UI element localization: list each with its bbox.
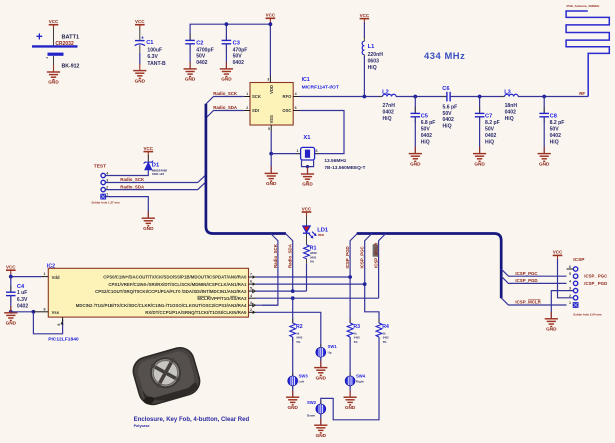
svg-text:RFO: RFO: [283, 94, 293, 99]
svg-text:1: 1: [246, 92, 248, 96]
svg-text:1: 1: [297, 149, 299, 153]
svg-text:VCC: VCC: [553, 250, 563, 255]
wire VCC to battery: [53, 28, 55, 46]
power VCC (IC2): [6, 265, 16, 275]
svg-text:IC2: IC2: [47, 263, 55, 269]
diode D1 (zener): [144, 161, 168, 176]
wire TEST pin4 to D1: [105, 170, 148, 176]
text enclosure caption: [134, 417, 250, 428]
svg-text:50V: 50V: [196, 54, 206, 60]
svg-text:5%: 5%: [310, 259, 315, 263]
svg-text:CR2032: CR2032: [55, 41, 74, 47]
svg-text:VCC: VCC: [6, 265, 16, 270]
pin 4 RFO stub: [293, 92, 299, 97]
capacitor C6 (series): [442, 86, 458, 130]
svg-text:VCC: VCC: [266, 13, 276, 18]
power VCC (ICSP): [553, 250, 563, 259]
ground (X1 case): [301, 167, 314, 187]
battery BATT1: [32, 32, 79, 70]
svg-text:50V: 50V: [550, 127, 560, 133]
wire L2 to C6: [396, 96, 447, 98]
wire C2 to ground: [189, 44, 191, 69]
svg-text:CPS1/VREF/C1IN0-/SRI/RX/DT/SCL: CPS1/VREF/C1IN0-/SRI/RX/DT/SCL/SCK/MDMIN…: [108, 282, 247, 287]
ground (battery): [47, 65, 60, 85]
svg-text:TEST: TEST: [94, 163, 106, 169]
svg-text:8: 8: [44, 307, 46, 311]
svg-text:Solder hole 2.54 mm: Solder hole 2.54 mm: [573, 312, 602, 316]
ground (C8): [538, 147, 551, 167]
pin 7 RA0 stub: [249, 273, 256, 279]
svg-text:8.2 pF: 8.2 pF: [485, 120, 500, 126]
svg-text:Down: Down: [307, 414, 315, 418]
svg-text:MDCIN2 /T1G/P1B/TX/CK/SDC/CLKR: MDCIN2 /T1G/P1B/TX/CK/SDC/CLKR/C1IN1-/T1…: [76, 303, 247, 308]
svg-text:2: 2: [569, 294, 571, 298]
svg-text:GND: GND: [135, 78, 146, 83]
wire SW2 to ground: [320, 413, 322, 424]
wire R4 to SW2: [321, 337, 379, 420]
antenna PCB_Antenna_434MHz: [566, 4, 609, 96]
svg-text:SOD-123: SOD-123: [152, 172, 164, 176]
svg-text:VCC: VCC: [360, 13, 370, 18]
wire C8 to ground: [543, 117, 545, 153]
junction C3 top: [225, 22, 229, 26]
svg-text:2: 2: [250, 308, 252, 312]
connector TEST header: [92, 163, 121, 204]
switch SW2 Down: [307, 400, 326, 418]
svg-text:1: 1: [44, 272, 46, 276]
svg-text:18nH: 18nH: [505, 103, 518, 109]
ground (TEST): [142, 211, 155, 231]
switch SW1 Up: [316, 344, 337, 361]
svg-text:Left: Left: [299, 380, 305, 384]
svg-text:HiQ: HiQ: [485, 139, 494, 145]
power VCC (C1): [135, 19, 145, 29]
wire C3 to ground: [225, 44, 227, 69]
svg-text:50V: 50V: [485, 127, 495, 133]
svg-text:50V: 50V: [443, 111, 453, 117]
wire C5 to node: [414, 97, 416, 114]
svg-text:SW2: SW2: [307, 400, 317, 405]
bus main: [206, 104, 286, 234]
svg-text:C5: C5: [421, 113, 428, 119]
wire VSS to ground: [270, 131, 272, 173]
svg-text:C7: C7: [485, 113, 492, 119]
svg-text:SW3: SW3: [299, 373, 309, 378]
svg-text:Radio_SDA: Radio_SDA: [120, 184, 145, 189]
resistor R4: [376, 319, 389, 344]
svg-text:GND: GND: [316, 375, 327, 380]
wire X1 case to ground: [302, 161, 314, 174]
svg-text:VDD: VDD: [269, 85, 274, 94]
svg-text:0402: 0402: [505, 109, 516, 115]
wire Radio_SCK to IC1: [206, 91, 244, 104]
svg-text:Right: Right: [356, 380, 364, 384]
svg-text:0402: 0402: [296, 336, 302, 340]
svg-text:IC1: IC1: [302, 77, 310, 83]
svg-text:6.3V: 6.3V: [17, 297, 28, 303]
svg-text:Solder hole 1.27 mm: Solder hole 1.27 mm: [92, 201, 121, 205]
bus right segment: [357, 234, 502, 299]
junction RA3/R2: [291, 296, 295, 300]
svg-text:OSC: OSC: [282, 108, 291, 113]
wire battery to ground: [53, 56, 55, 66]
svg-text:5%: 5%: [383, 340, 387, 344]
capacitor C4: [6, 284, 28, 310]
key fob photo: [130, 344, 203, 407]
wire ICSP_PGC to header: [501, 269, 566, 276]
svg-text:0603: 0603: [368, 59, 379, 65]
svg-text:5: 5: [250, 287, 252, 291]
capacitor C1 (polarized): [135, 36, 166, 67]
wire R1 to RA2 net: [306, 263, 308, 291]
svg-text:7B-13.560MEEQ-T: 7B-13.560MEEQ-T: [324, 165, 365, 171]
ground (C7): [473, 147, 486, 167]
wire ICSP pin3 to ground: [551, 291, 573, 319]
svg-text:1: 1: [106, 193, 108, 197]
capacitor C2: [185, 34, 213, 66]
svg-text:GND: GND: [221, 77, 232, 82]
svg-text:220nH: 220nH: [368, 52, 384, 58]
junction C5 node: [413, 95, 417, 99]
wire ICSP_PGD to header: [501, 276, 566, 283]
wire TEST pin2 Radio_SDA: [105, 182, 205, 190]
junction C8 node: [542, 95, 546, 99]
svg-text:0402: 0402: [550, 133, 561, 139]
svg-text:C4: C4: [17, 284, 25, 290]
svg-text:MICRF114T-I/OT: MICRF114T-I/OT: [302, 84, 339, 90]
svg-text:CPS0/C1IN+/DACOUT/TX/CK/SDO/SS: CPS0/C1IN+/DACOUT/TX/CK/SDO/SS/P1B/MDOUT…: [103, 275, 247, 280]
wire VCC to C1: [139, 28, 141, 40]
svg-text:Vss: Vss: [52, 310, 60, 315]
svg-text:R4: R4: [382, 324, 389, 330]
pin 5 VSS stub: [268, 125, 271, 131]
svg-text:GND: GND: [185, 77, 196, 82]
svg-text:ICSP: ICSP: [573, 257, 585, 263]
svg-text:PIC12LF1840: PIC12LF1840: [48, 336, 79, 342]
wire VCC to D1: [147, 155, 149, 162]
svg-text:HiQ: HiQ: [383, 116, 392, 122]
svg-text:HiQ: HiQ: [505, 116, 514, 122]
svg-text:4: 4: [106, 171, 108, 175]
IC IC2 PIC12LF1840 body: [47, 263, 249, 342]
svg-text:0402: 0402: [354, 336, 360, 340]
wire RFO to L2: [300, 96, 383, 98]
svg-text:SW4: SW4: [356, 373, 366, 378]
wire VCC down to IC1 VDD: [269, 22, 271, 76]
svg-text:ICSP_MCLR: ICSP_MCLR: [373, 242, 378, 268]
wire Vss net: [11, 311, 34, 313]
svg-text:0402: 0402: [383, 336, 389, 340]
ground (SW3): [286, 390, 299, 410]
svg-text:1k: 1k: [296, 331, 299, 335]
svg-text:5.6 pF: 5.6 pF: [443, 104, 458, 110]
svg-text:GND: GND: [48, 80, 59, 85]
LED LD1: [303, 226, 329, 238]
pin 6 OSC stub: [293, 106, 299, 111]
switch SW4 Right: [345, 373, 365, 390]
svg-text:ICSP_ PGD: ICSP_ PGD: [584, 281, 607, 286]
svg-text:1: 1: [569, 301, 571, 305]
power VCC (battery): [49, 19, 59, 29]
svg-text:27nH: 27nH: [383, 103, 396, 109]
wire VCC to ICSP pin2: [558, 259, 574, 298]
svg-text:L2: L2: [382, 90, 389, 96]
pin bottom stub: [57, 317, 64, 326]
wire C4 top: [10, 277, 12, 293]
wire bus entry ICSP_PGD down: [350, 234, 357, 324]
svg-text:Radio_SDA: Radio_SDA: [213, 105, 238, 110]
pin 1 Vdd stub: [42, 272, 49, 276]
svg-text:Radio_SCK: Radio_SCK: [273, 243, 278, 268]
svg-text:330R: 330R: [310, 251, 317, 255]
resistor R3: [347, 319, 360, 344]
svg-text:ICSP_PGC: ICSP_PGC: [515, 271, 538, 276]
wire bus entry ICSP_MCLR down: [379, 234, 386, 299]
svg-text:R2: R2: [296, 324, 303, 330]
svg-text:1k: 1k: [383, 331, 386, 335]
svg-text:Radio_SCK: Radio_SCK: [120, 177, 145, 182]
inductor L1: [362, 37, 383, 71]
inductor L2: [378, 90, 400, 122]
svg-text:RF: RF: [579, 91, 585, 96]
wire RA3 net to R2: [292, 298, 294, 323]
power VCC (L1): [360, 13, 370, 23]
svg-text:C6: C6: [442, 86, 449, 92]
svg-text:SCK: SCK: [252, 94, 261, 99]
svg-text:C3: C3: [233, 40, 240, 46]
svg-text:1 uF: 1 uF: [17, 290, 27, 296]
wire C7 to node: [479, 97, 481, 114]
junction VCC / C4: [9, 275, 13, 279]
svg-text:VSS: VSS: [269, 115, 274, 124]
svg-text:C1: C1: [146, 40, 153, 46]
ground (SW2): [314, 418, 327, 438]
wire RA2 to Radio_SDA and R1: [256, 290, 307, 292]
pin 8 Vss stub: [33, 307, 48, 311]
power VCC (IC1 VDD): [266, 13, 276, 23]
svg-text:4: 4: [250, 294, 252, 298]
svg-text:0402: 0402: [233, 60, 244, 66]
power VCC (LD1): [302, 206, 312, 216]
svg-text:HiQ: HiQ: [443, 124, 452, 130]
wire VCC to L1: [363, 22, 365, 38]
svg-text:6.3V: 6.3V: [147, 54, 158, 60]
svg-text:+: +: [36, 32, 43, 44]
wire X1 pin1 to VSS: [271, 153, 301, 155]
junction VSS / X1: [269, 152, 273, 156]
svg-text:ICSP_MCLR: ICSP_MCLR: [515, 300, 541, 305]
svg-text:ICSP_PGC: ICSP_PGC: [360, 245, 365, 268]
ground (C3): [220, 62, 233, 82]
svg-text:4: 4: [295, 92, 297, 96]
svg-text:2: 2: [106, 186, 108, 190]
resistor R1: [304, 240, 317, 263]
ground (C2): [184, 62, 197, 82]
svg-text:0402: 0402: [443, 117, 454, 123]
ground (C5): [409, 147, 422, 167]
svg-text:SW1: SW1: [328, 344, 338, 349]
node label ICSP_MCLR vertical (highlighted): [373, 242, 379, 268]
svg-text:6: 6: [250, 280, 252, 284]
wire VCC to Vdd: [11, 274, 42, 277]
svg-text:GND: GND: [474, 161, 485, 166]
svg-text:Polycase: Polycase: [134, 424, 150, 428]
svg-text:1k: 1k: [354, 331, 357, 335]
wire RA3 to ICSP_MCLR: [256, 297, 379, 299]
svg-text:8.2 pF: 8.2 pF: [550, 120, 565, 126]
IC IC1 MICRF114T-I/OT body: [250, 77, 339, 125]
svg-text:434 MHz: 434 MHz: [424, 50, 465, 61]
pin 1 SCK stub: [244, 92, 250, 97]
svg-text:RED: RED: [318, 233, 325, 237]
ground (IC1 VSS): [265, 167, 278, 187]
svg-text:GND: GND: [287, 405, 298, 410]
junction VCC rail / VDD: [269, 22, 273, 26]
svg-text:8: 8: [57, 324, 61, 326]
svg-text:50V: 50V: [233, 54, 243, 60]
svg-text:C8: C8: [550, 113, 557, 119]
junction RA1/PGC: [363, 282, 367, 286]
svg-text:50V: 50V: [421, 127, 431, 133]
pin 4 RA3 stub: [249, 294, 256, 298]
pin 2 RA5 stub: [249, 308, 256, 314]
svg-text:Enclosure, Key Fob, 4-button,: Enclosure, Key Fob, 4-button, Clear Red: [134, 417, 250, 423]
svg-text:Radio_SDA: Radio_SDA: [288, 243, 293, 268]
wire OSC to X1 pin3: [300, 111, 345, 154]
svg-text:L3: L3: [504, 90, 511, 96]
ground (C4): [4, 306, 17, 326]
wire C6 to L3: [450, 96, 504, 98]
svg-text:VCC: VCC: [135, 19, 145, 24]
wire RA0 to ICSP_PGD: [256, 276, 351, 278]
svg-text:6: 6: [569, 265, 571, 269]
svg-text:6: 6: [295, 106, 297, 110]
junction L1 node: [363, 95, 367, 99]
crystal X1: [296, 135, 365, 171]
svg-text:GND: GND: [266, 181, 277, 186]
svg-text:ICSP_PGD: ICSP_PGD: [515, 278, 537, 283]
junction RA0/PGD: [348, 275, 352, 279]
svg-text:MCLR/VPP/T1G/SS/RA3: MCLR/VPP/T1G/SS/RA3: [197, 296, 247, 301]
junction Vss: [32, 310, 36, 314]
wire L1 to RF line: [363, 56, 365, 97]
pin 3 RA4 stub: [249, 301, 256, 307]
svg-text:CPS2/C1OUT/SRQ/T0CKI/CCP1/P1A/: CPS2/C1OUT/SRQ/T0CKI/CCP1/P1A/FLT0 /SDA/…: [95, 289, 247, 294]
connector ICSP header: [567, 257, 608, 316]
svg-text:3: 3: [250, 301, 252, 305]
wire Vss loop to bottom pin: [33, 312, 62, 334]
svg-text:RX/DT/CCP1/P1A/SRNQ/T1CKI/T1OS: RX/DT/CCP1/P1A/SRNQ/T1CKI/T1OSI/CLKIN/RA…: [145, 310, 247, 315]
pin 5 RA2 stub: [249, 287, 256, 293]
svg-text:VCC: VCC: [302, 206, 312, 211]
ground (SW1): [314, 361, 327, 381]
svg-text:PCB_Antenna_434MHz: PCB_Antenna_434MHz: [567, 4, 600, 8]
svg-text:6.8 pF: 6.8 pF: [421, 120, 436, 126]
ground (ICSP): [545, 312, 558, 332]
svg-text:5%: 5%: [354, 340, 358, 344]
wire VCC to LD1: [306, 216, 308, 226]
wire TEST pin1 to ground: [105, 197, 148, 218]
svg-text:100uF: 100uF: [147, 48, 162, 54]
switch SW3 Left: [288, 373, 308, 390]
wire bus entry ICSP_PGC down: [365, 234, 379, 324]
wire C5 to ground: [414, 117, 416, 153]
wire C8 to node: [543, 97, 545, 114]
wire R2 to SW3: [292, 337, 294, 376]
svg-text:+: +: [141, 36, 144, 42]
svg-text:Up: Up: [328, 350, 332, 354]
resistor R2: [290, 319, 303, 344]
svg-text:SDI: SDI: [252, 108, 259, 113]
wire C3 to rail: [225, 24, 227, 40]
svg-text:GND: GND: [6, 321, 17, 326]
svg-text:GND: GND: [410, 161, 421, 166]
svg-text:TANT-B: TANT-B: [147, 61, 166, 67]
svg-text:GND: GND: [546, 327, 557, 332]
svg-text:3: 3: [267, 78, 269, 82]
wire SW4 to ground: [349, 385, 351, 396]
ground (C1): [133, 64, 146, 84]
svg-text:BK-912: BK-912: [62, 64, 80, 70]
inductor L3: [500, 90, 522, 122]
wire VCC rail top: [190, 24, 270, 40]
svg-text:470pF: 470pF: [233, 47, 248, 53]
svg-text:BATT1: BATT1: [62, 35, 80, 41]
svg-text:R3: R3: [353, 324, 360, 330]
svg-text:HiQ: HiQ: [368, 65, 377, 71]
svg-text:HiQ: HiQ: [550, 139, 559, 145]
pin 2 SDI stub: [244, 106, 250, 111]
svg-text:0402: 0402: [421, 133, 432, 139]
wire RA1 to ICSP_PGC: [256, 283, 365, 285]
svg-text:3: 3: [569, 287, 571, 291]
wire RA5 to SW1: [256, 312, 321, 348]
svg-text:C2: C2: [196, 40, 203, 46]
wire SW3 to ground: [292, 385, 294, 396]
ground (SW4): [344, 390, 357, 410]
svg-text:GND: GND: [345, 405, 356, 410]
svg-text:2: 2: [246, 106, 248, 110]
wire RA4 to Radio_SCK: [256, 304, 278, 306]
pin 6 RA1 stub: [249, 280, 256, 286]
wire ICSP_MCLR to header: [501, 298, 566, 305]
svg-text:HiQ: HiQ: [421, 139, 430, 145]
svg-text:VCC: VCC: [144, 146, 154, 151]
svg-text:3: 3: [106, 178, 108, 182]
wire C7 to ground: [479, 117, 481, 153]
svg-text:ICSP_ PGC: ICSP_ PGC: [584, 274, 607, 279]
svg-text:GND: GND: [143, 226, 154, 231]
junction C7 node: [478, 95, 482, 99]
svg-text:0402: 0402: [485, 133, 496, 139]
svg-text:0402: 0402: [17, 304, 28, 310]
pin 3 VDD stub: [267, 76, 270, 83]
svg-text:GND: GND: [302, 182, 313, 187]
svg-text:Vdd: Vdd: [52, 275, 60, 280]
svg-text:5: 5: [268, 127, 270, 131]
wire bus entry Radio_SCK down: [262, 234, 278, 306]
power VCC (D1): [144, 146, 154, 156]
junction C4 / Vss: [9, 310, 13, 314]
svg-text:3: 3: [316, 149, 318, 153]
capacitor C5: [411, 107, 436, 145]
capacitor C3: [222, 34, 248, 66]
wire SW1 to ground: [320, 357, 322, 367]
svg-text:5%: 5%: [296, 340, 300, 344]
wire Radio_SDA to IC1: [206, 105, 244, 118]
svg-text:0402: 0402: [383, 109, 394, 115]
svg-text:Radio_SCK: Radio_SCK: [213, 91, 238, 96]
